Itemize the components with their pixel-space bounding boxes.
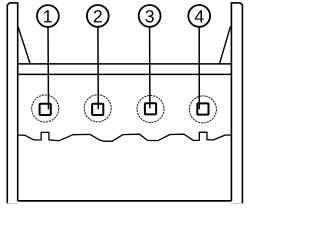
leader line 4 (198, 27, 200, 110)
balloon 2 (87, 5, 109, 27)
leader line 3 (149, 27, 151, 109)
leader line 1 (47, 27, 50, 110)
break line with latch notches (18, 132, 232, 141)
balloon 1 (37, 5, 59, 27)
body bottom edge line (18, 200, 232, 202)
pin 1 (32, 95, 59, 122)
balloon 3 (139, 5, 161, 27)
right gusset diagonal (220, 27, 231, 64)
left gusset diagonal (18, 27, 30, 64)
body inner edge line (18, 73, 232, 75)
balloon 4 (188, 5, 210, 27)
pin 4 (189, 96, 216, 123)
pin 2 (84, 95, 111, 122)
left wall bottom cap (7, 203, 17, 205)
pin 3 (137, 96, 164, 123)
housing left wall (7, 3, 17, 204)
body top edge line (18, 63, 232, 65)
right wall bottom cap (231, 203, 242, 205)
leader line 2 (97, 27, 99, 110)
housing right wall (231, 3, 242, 204)
